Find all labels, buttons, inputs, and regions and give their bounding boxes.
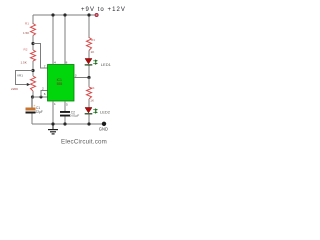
svg-text:R1: R1	[25, 22, 29, 26]
resistor R2	[31, 50, 36, 61]
wire ground bus	[32, 123, 103, 125]
wire pin 5 to C2	[64, 101, 66, 111]
LED D1	[85, 59, 92, 64]
node output junction	[87, 76, 90, 79]
svg-text:R4: R4	[91, 86, 95, 90]
ground symbol	[48, 124, 58, 134]
node right branch bus junction	[87, 13, 90, 16]
svg-text:R2: R2	[24, 48, 28, 52]
node GND terminal	[102, 122, 106, 126]
svg-text:LED1: LED1	[101, 62, 112, 67]
svg-text:6: 6	[44, 92, 46, 96]
svg-text:555: 555	[57, 82, 63, 86]
node R2/VR1 junction	[31, 69, 34, 72]
wire R2 to node	[32, 61, 34, 76]
wire left branch top	[32, 15, 34, 24]
wire top supply bus	[33, 14, 95, 16]
wire LED2 to ground bus	[88, 114, 90, 124]
resistor R3	[87, 38, 92, 51]
wire R3 to LED1	[88, 51, 90, 59]
node +V terminal	[95, 14, 98, 17]
wire LED1 to output node	[88, 66, 90, 78]
wire VR1 to node	[32, 91, 34, 97]
LED D2	[85, 108, 92, 113]
svg-text:VR1: VR1	[17, 74, 23, 78]
node VR1/C1 junction	[31, 95, 34, 98]
capacitor C2	[60, 111, 70, 113]
svg-text:1K: 1K	[90, 99, 94, 103]
node LED2 ground junction	[87, 122, 90, 125]
potentiometer VR1 resistor body	[31, 76, 36, 91]
svg-text:8: 8	[66, 61, 68, 65]
svg-text:+9V to +12V: +9V to +12V	[81, 7, 126, 13]
svg-text:4: 4	[54, 61, 56, 65]
potentiometer VR1 arrow	[27, 83, 31, 86]
wire R1 to node	[32, 36, 34, 51]
wire C2 to ground bus	[64, 117, 66, 125]
svg-text:1.5K: 1.5K	[21, 61, 27, 65]
wire pin 7 link	[33, 44, 48, 69]
svg-text:1.5K: 1.5K	[23, 31, 29, 35]
wire right branch from bus	[88, 15, 90, 38]
wire R4 to LED2	[88, 99, 90, 108]
node pin2 riser junction	[40, 96, 43, 99]
svg-text:1K: 1K	[91, 50, 95, 54]
wire C1 to ground bus	[31, 114, 33, 125]
node pin1 ground junction	[51, 122, 54, 125]
resistor R1	[31, 24, 36, 36]
svg-text:R3: R3	[91, 38, 95, 42]
wire pin 4 to bus	[52, 15, 54, 65]
capacitor C1	[31, 97, 33, 108]
wire pin 3 output	[74, 77, 89, 79]
svg-text:0.01µF: 0.01µF	[70, 114, 80, 118]
resistor R4	[87, 87, 92, 99]
svg-text:ElecCircuit.com: ElecCircuit.com	[61, 139, 107, 146]
LED D2 emission arrows	[93, 109, 97, 113]
wire pin 1 to ground bus	[52, 101, 54, 124]
svg-text:5: 5	[66, 103, 68, 107]
wire node to R4	[88, 78, 90, 88]
svg-text:220K: 220K	[11, 87, 18, 91]
node pin8 bus junction	[63, 13, 66, 16]
LED D1 emission arrows	[93, 60, 97, 64]
svg-text:GND: GND	[99, 126, 108, 131]
svg-text:3: 3	[75, 74, 77, 78]
svg-text:LED2: LED2	[100, 109, 111, 114]
wire trigger node to pin 6	[33, 96, 48, 98]
node C2 ground junction	[63, 122, 66, 125]
svg-text:22µF: 22µF	[36, 110, 43, 114]
node R1/R2/pin7 junction	[31, 42, 34, 45]
wire pin 8 to bus	[64, 15, 66, 65]
svg-text:7: 7	[44, 64, 46, 68]
wire pin 2 link	[41, 91, 48, 98]
svg-text:2: 2	[42, 87, 44, 91]
potentiometer VR1 wiper loop	[16, 71, 34, 85]
IC U1 555 timer body	[48, 65, 75, 102]
node pin4 bus junction	[51, 13, 54, 16]
svg-text:1: 1	[54, 102, 56, 106]
